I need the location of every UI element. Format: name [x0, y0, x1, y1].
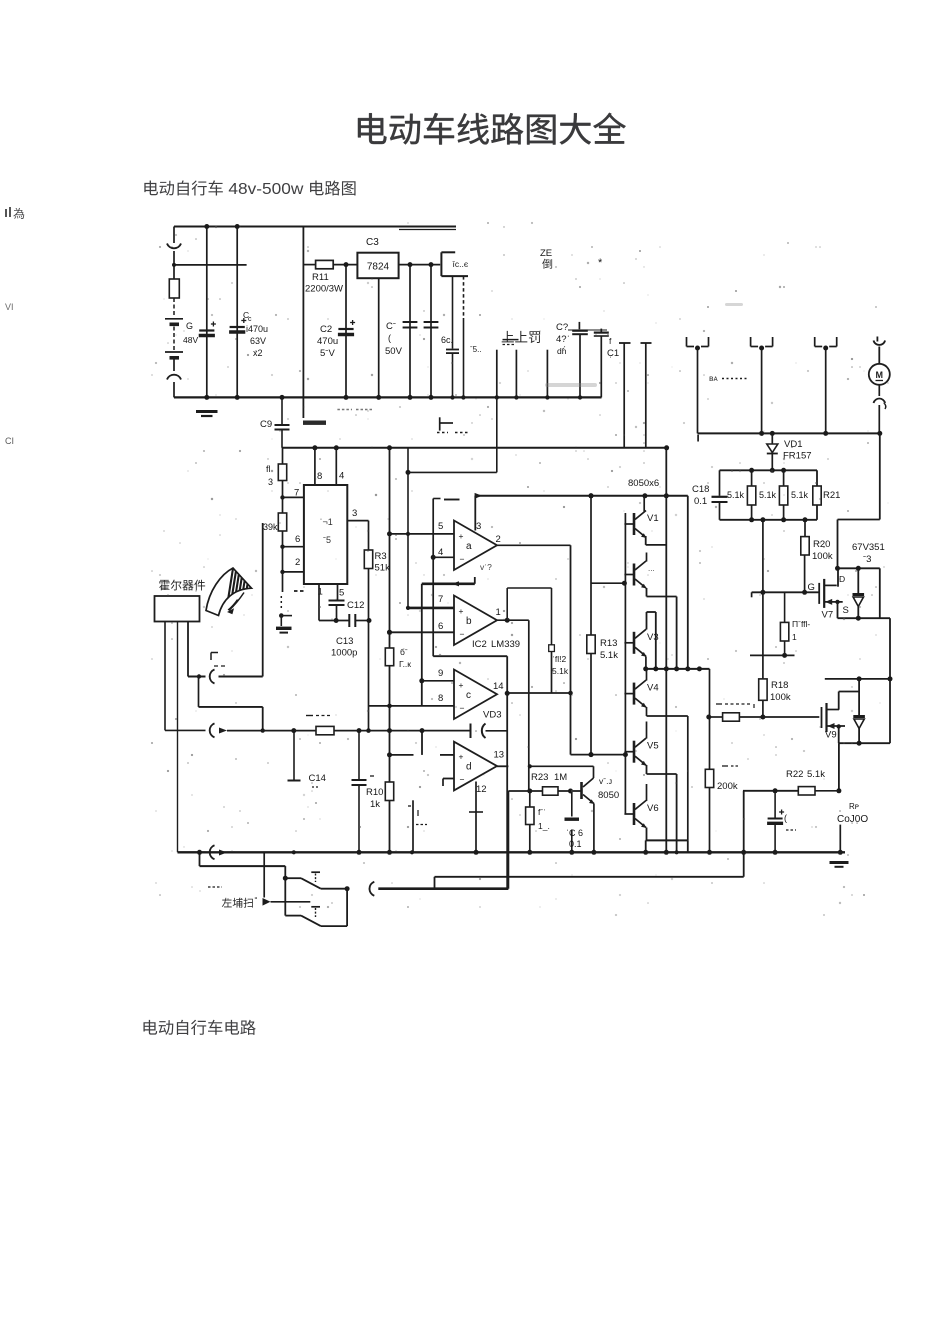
label CoJOO	[837, 802, 868, 825]
capacitor C6	[568, 322, 607, 398]
svg-text:c: c	[248, 316, 252, 323]
svg-text:C̣1: C̣1	[607, 348, 619, 359]
ground under C1a	[196, 412, 218, 417]
svg-text:G: G	[808, 582, 815, 593]
capacitor C13 1000p	[319, 614, 372, 659]
wire V9 source down	[836, 743, 841, 793]
svg-text:C18: C18	[692, 484, 709, 495]
dashed step mark	[437, 417, 470, 432]
svg-text:ˉ3: ˉ3	[863, 554, 871, 565]
battery G 48V	[165, 298, 198, 371]
wire speed cont	[334, 728, 471, 733]
wire square lower	[551, 652, 553, 694]
switch brake1	[285, 872, 349, 891]
svg-text:48V: 48V	[183, 335, 198, 345]
wire V1 emitter path	[646, 536, 667, 545]
label fl!2 5.1k	[552, 654, 569, 676]
wire out ground	[838, 825, 843, 855]
resistor fl 3	[266, 448, 287, 498]
wire cross small bar	[288, 731, 301, 781]
svg-text:dɦ́: dɦ́	[557, 345, 567, 356]
svg-text:100k: 100k	[812, 551, 833, 562]
svg-text:C14: C14	[309, 773, 326, 784]
wire V1 collector	[643, 496, 645, 512]
label pin5	[339, 588, 344, 599]
svg-text:V9: V9	[825, 730, 837, 741]
page title 电动车线路图大全	[358, 113, 626, 145]
margin artifact 為	[5, 207, 24, 219]
svg-text:−: −	[460, 554, 465, 564]
svg-text:LM339: LM339	[491, 639, 520, 650]
regulator IC3 7824	[357, 253, 398, 279]
wire cap-leg 625 up	[619, 343, 631, 448]
svg-text:fl: fl	[266, 464, 271, 474]
svg-text:1000p: 1000p	[331, 648, 357, 659]
svg-text:5.1k: 5.1k	[759, 490, 777, 500]
wire pin1 stub	[318, 584, 320, 621]
wire V7 drain	[835, 566, 880, 587]
wire 762 vertical	[762, 520, 764, 679]
resistor 200k	[705, 717, 740, 855]
svg-text:2200/3W: 2200/3W	[305, 284, 343, 295]
svg-text:12: 12	[476, 784, 487, 795]
svg-text:Пˉffl-: Пˉffl-	[792, 619, 810, 629]
wire mid horizontal 48V	[172, 263, 247, 267]
svg-text:R10: R10	[366, 787, 383, 798]
label C.1	[607, 336, 619, 359]
svg-text:V5: V5	[647, 741, 659, 752]
motor M	[869, 364, 890, 385]
wire base link	[591, 581, 627, 586]
node square marker	[549, 645, 555, 652]
svg-text:+: +	[459, 606, 464, 616]
svg-text:IC2: IC2	[472, 639, 487, 650]
svg-text:V3: V3	[647, 632, 659, 643]
wire b minus in	[387, 630, 454, 635]
capacitor stub A	[496, 350, 498, 398]
resistor 5.1k mid	[385, 448, 411, 733]
wire main ground rail	[178, 850, 846, 855]
wire c minus in	[369, 704, 455, 709]
wire rail B	[282, 445, 669, 450]
resistor R11 2200/3W	[303, 260, 357, 294]
wire base bus	[623, 513, 628, 814]
wire bus-to-railB link	[697, 435, 699, 442]
resistor network frame	[720, 468, 818, 523]
wire 24V out	[399, 262, 441, 267]
connector plug bottom-left	[167, 375, 181, 398]
svg-text:14: 14	[493, 681, 504, 692]
wire V4 emitter path	[647, 707, 688, 840]
ground output	[830, 863, 849, 867]
wire b-out long vertical	[527, 620, 532, 793]
label underline TM	[503, 340, 519, 345]
svg-text:7824: 7824	[367, 262, 390, 273]
svg-text:+: +	[459, 531, 464, 541]
resistor R20 100k	[801, 520, 833, 593]
svg-text:(: (	[388, 333, 391, 343]
wire pin8 top	[314, 448, 316, 484]
wire V7 source	[835, 568, 890, 620]
svg-text:VD3: VD3	[483, 710, 501, 721]
wire pin7	[280, 495, 304, 499]
svg-text:3: 3	[476, 521, 481, 532]
svg-text:S: S	[843, 605, 849, 616]
svg-text:C12: C12	[347, 600, 364, 611]
wire a out	[497, 544, 571, 546]
svg-text:5.1k: 5.1k	[727, 490, 745, 500]
label 5..	[470, 345, 482, 354]
resistor speed	[306, 716, 334, 735]
svg-text:C?: C?	[556, 322, 568, 333]
margin artifact CI	[5, 436, 14, 446]
diode V9 body	[853, 679, 865, 743]
label IC2 LM339	[472, 639, 520, 650]
resistor R3 51k	[364, 550, 390, 733]
wire R22 row	[741, 788, 798, 877]
diode VD1 FR157	[767, 433, 812, 470]
wire rail-to-bus 688	[685, 496, 690, 672]
wire dashed-box left vertical	[302, 227, 304, 419]
resistor Rb 5.1k	[759, 470, 788, 520]
capacitor stub C	[546, 350, 548, 398]
resistor Ra 5.1k	[727, 470, 756, 520]
svg-text:Г..к: Г..к	[399, 659, 411, 669]
mosfet V7	[819, 574, 849, 621]
label C3	[366, 237, 379, 248]
svg-text:R3: R3	[375, 551, 387, 562]
svg-text:5.1k: 5.1k	[791, 490, 809, 500]
capacitor C7 end	[594, 329, 609, 398]
wire hall row2	[199, 677, 265, 733]
svg-text:51k: 51k	[375, 563, 391, 574]
svg-text:R11: R11	[312, 272, 329, 283]
svg-text:63V: 63V	[250, 336, 266, 346]
wire 78L05 lower left	[446, 276, 459, 399]
label pin2	[295, 557, 300, 568]
wire speed main	[294, 730, 316, 732]
wire V2 emitter path	[647, 588, 680, 671]
capacitor C2 470u	[338, 265, 355, 400]
wire 78L05 lower right	[461, 276, 465, 399]
svg-text:8050: 8050	[598, 790, 619, 801]
capacitor C18 0.1	[692, 470, 728, 520]
svg-text:b: b	[466, 616, 472, 627]
switch brake2	[285, 889, 347, 926]
op-amp IC2d	[454, 742, 504, 795]
svg-text:ˈ¬1: ˈ¬1	[320, 517, 333, 527]
svg-text:i470u: i470u	[246, 324, 268, 334]
capacitor C14	[309, 731, 375, 855]
wire 709 vertical	[709, 669, 711, 717]
svg-text:470u: 470u	[317, 336, 338, 347]
connector motor bottom	[874, 385, 886, 434]
label 67V351 x3	[852, 542, 885, 565]
thick bar under box	[303, 410, 373, 425]
wire pin4 top	[335, 448, 337, 484]
svg-text:a: a	[466, 541, 472, 552]
wire V9 gate row	[706, 715, 765, 720]
svg-text:ʺ: ʺ	[255, 896, 258, 905]
wire hall row1	[188, 523, 263, 684]
capacitor C5	[424, 265, 439, 400]
wire R23 row	[508, 791, 542, 889]
svg-text:C9: C9	[260, 419, 272, 430]
svg-text:7: 7	[438, 594, 443, 605]
label pin1	[318, 587, 323, 598]
wire V3 emitter	[643, 657, 648, 672]
wire b out	[497, 588, 529, 623]
svg-text:0.1: 0.1	[694, 496, 707, 507]
wire hall row3 throttle	[165, 723, 296, 737]
label 8050x6	[628, 478, 659, 489]
wire hall pin1	[164, 622, 166, 731]
wire battery to fuse	[173, 266, 175, 280]
mark dashes under IC1	[294, 590, 306, 592]
svg-text:(: (	[784, 813, 787, 823]
capacitor C1a	[199, 227, 216, 398]
label 霍尔器件	[159, 580, 205, 591]
svg-text:1: 1	[496, 607, 501, 618]
svg-text:ᴠˈ?: ᴠˈ?	[480, 562, 492, 572]
wire a minus in	[431, 555, 454, 560]
transistor V1	[624, 511, 658, 539]
wire mid bus	[646, 666, 710, 671]
label pin4	[339, 471, 344, 482]
svg-text:CoJ̣0̣O: CoJ̣0̣O	[837, 814, 868, 825]
svg-text:1M: 1M	[554, 772, 567, 783]
wire hall pin2	[177, 622, 179, 853]
svg-text:8: 8	[317, 471, 322, 482]
svg-text:67V351: 67V351	[852, 542, 885, 553]
label 上上罚	[502, 331, 540, 343]
wire V5 emitter path	[647, 765, 677, 840]
wire V9 bottom	[837, 679, 891, 746]
svg-text:FR157: FR157	[783, 451, 812, 462]
wire mid cross	[433, 656, 507, 693]
svg-text:5ˉV: 5ˉV	[320, 348, 335, 359]
scan smudge 1	[545, 383, 597, 387]
hall sensor box	[155, 596, 200, 622]
svg-text:4: 4	[438, 547, 443, 558]
resistor 39k	[263, 497, 287, 546]
svg-text:ᴠˉ.ᴊ: ᴠˉ.ᴊ	[599, 776, 612, 786]
wire brake feed	[200, 852, 288, 915]
wire V2 collector	[646, 553, 648, 562]
scan smudge 2	[725, 303, 743, 306]
wire cap-leg 646 up	[641, 343, 652, 448]
resistor V9 gate	[716, 704, 819, 721]
label C? 4?	[556, 322, 570, 356]
label 左刹把	[208, 887, 258, 908]
svg-text:...: ...	[648, 564, 655, 573]
svg-text:1: 1	[792, 632, 797, 642]
label pin6	[295, 534, 300, 545]
diode V7 body	[853, 568, 865, 618]
subtitle 电动自行车 48v-500w 电路图	[144, 180, 355, 198]
wire b-to-square	[507, 587, 551, 589]
op-amp IC2b	[438, 594, 501, 645]
svg-text:13: 13	[494, 750, 505, 761]
wire column top rail	[475, 493, 688, 531]
capacitor base C	[565, 791, 580, 855]
svg-text:200k: 200k	[717, 781, 738, 792]
svg-text:R22: R22	[786, 769, 803, 780]
capacitor C12	[329, 584, 365, 621]
connector brake out	[369, 882, 508, 896]
svg-text:c: c	[466, 690, 471, 701]
label motor dashed	[709, 373, 748, 383]
wire d minus in	[443, 779, 454, 787]
margin artifact VI	[5, 302, 14, 312]
svg-text:5: 5	[438, 521, 443, 532]
wire V9 top row	[825, 676, 890, 691]
capacitor stub B	[515, 350, 517, 398]
svg-text:2: 2	[496, 534, 501, 545]
capacitor C1b	[229, 227, 246, 398]
resistor R21 5.1k	[791, 486, 840, 505]
wire V9 drain	[838, 692, 840, 710]
svg-text:+: +	[459, 680, 464, 690]
resistor R22 5.1k	[786, 769, 839, 795]
wire c plus vertical	[421, 584, 423, 706]
fuse FU	[169, 279, 179, 298]
connector gnd left	[178, 845, 236, 859]
wire phase bus	[698, 431, 883, 436]
svg-text:−: −	[460, 703, 465, 713]
op-amp IC2a	[438, 521, 501, 573]
svg-text:CI: CI	[5, 436, 14, 446]
svg-text:−: −	[460, 774, 465, 784]
throttle grip	[206, 562, 254, 616]
label ZE 倒	[540, 248, 552, 269]
wire d pin12 stub	[469, 782, 483, 855]
svg-text:−: −	[460, 629, 465, 639]
svg-text:īᴄ..є: īᴄ..є	[453, 259, 469, 269]
transistor V13 8050	[580, 766, 619, 855]
bar over a	[444, 499, 460, 501]
svg-text:3: 3	[352, 508, 357, 519]
svg-text:1_.: 1_.	[538, 821, 550, 831]
svg-text:0.1: 0.1	[569, 839, 582, 849]
regulator 78L05	[441, 252, 468, 276]
transistor V6	[624, 801, 658, 829]
wire stub 413	[408, 800, 427, 852]
svg-text:39k: 39k	[263, 522, 278, 532]
connector phase A	[687, 337, 709, 433]
wire top rail	[174, 224, 456, 230]
wire V3 collector	[647, 612, 656, 669]
op-amp IC2c	[438, 668, 504, 719]
resistor gate pulldown	[750, 592, 810, 658]
svg-text:G: G	[186, 321, 193, 331]
connector motor top	[874, 337, 886, 364]
label C? 50V	[385, 321, 403, 357]
wire feedback box	[435, 877, 744, 889]
wire ground rail upper	[174, 395, 602, 400]
wire V5 collector	[646, 722, 648, 739]
transistor V2	[624, 561, 654, 589]
ground IC1	[276, 628, 292, 632]
resistor R18 100k	[759, 679, 791, 717]
svg-text:50V: 50V	[385, 346, 403, 357]
svg-text:ˉ5: ˉ5	[323, 535, 331, 545]
label C2 470u 50V	[317, 324, 338, 359]
wire a-out vertical long	[568, 545, 573, 754]
mosfet V9	[822, 703, 846, 741]
svg-text:R18: R18	[771, 680, 788, 691]
label C6 0.1	[566, 828, 583, 849]
svg-text:ˉ5..: ˉ5..	[470, 345, 482, 354]
wire hall pin3	[187, 622, 189, 677]
wire c plus in	[419, 678, 454, 683]
svg-text:R21: R21	[823, 490, 840, 501]
wire V6 emitter path	[643, 828, 688, 855]
wire battery left rail upper	[173, 227, 175, 244]
wire to ground dashed	[279, 572, 292, 626]
svg-text:бˉ: бˉ	[400, 647, 408, 657]
svg-text:R13: R13	[600, 638, 617, 649]
svg-text:4?ˈ: 4?ˈ	[556, 334, 570, 345]
wire a plus in	[387, 531, 454, 536]
svg-text:7: 7	[294, 488, 299, 499]
resistor R13 5.1k	[587, 493, 618, 757]
svg-text:3: 3	[268, 477, 273, 487]
svg-text:5.1k: 5.1k	[600, 650, 618, 661]
wire V7-V9 link	[888, 618, 893, 681]
label pin3	[352, 508, 357, 519]
svg-text:ZE: ZE	[540, 248, 552, 259]
svg-text:ˈC 6: ˈC 6	[566, 828, 583, 838]
wire square upper	[551, 588, 553, 645]
svg-text:C13: C13	[336, 636, 353, 647]
hook mark upper	[211, 653, 228, 667]
svg-text:6ᴄ.: 6ᴄ.	[441, 335, 453, 345]
svg-text:8050x6: 8050x6	[628, 478, 659, 489]
wire railB link down	[408, 397, 497, 472]
connector phase B	[751, 337, 773, 436]
svg-text:5.1k: 5.1k	[552, 666, 569, 676]
label star	[598, 257, 603, 269]
svg-text:M: M	[876, 370, 884, 380]
svg-text:100k: 100k	[770, 692, 791, 703]
wire minus bus vertical	[433, 499, 440, 657]
wire comp feed vertical	[406, 448, 411, 608]
wire motor down	[838, 433, 880, 568]
svg-text:C3: C3	[366, 237, 379, 248]
svg-text:6: 6	[295, 534, 300, 545]
svg-text:VI: VI	[5, 302, 14, 312]
svg-text:8: 8	[438, 693, 443, 704]
wire V6 collector	[646, 784, 648, 801]
wire collector link	[530, 765, 594, 767]
svg-text:2: 2	[295, 557, 300, 568]
wire c out	[505, 691, 571, 889]
wire V7 gate row	[752, 590, 820, 598]
scan noise speckle	[151, 222, 889, 916]
svg-text:fˉˈ: fˉˈ	[538, 807, 546, 817]
resistor base lower	[526, 791, 550, 855]
label pin8	[317, 471, 322, 482]
resistor R23 1M	[531, 772, 581, 795]
wire b plus in	[406, 606, 454, 610]
svg-text:V4: V4	[647, 683, 659, 694]
label pin7	[294, 488, 299, 499]
svg-text:R20: R20	[813, 539, 830, 550]
wire brake2 feed	[263, 852, 311, 905]
label Cc 470u 63V x2	[243, 310, 268, 358]
IC IC1 box	[304, 485, 347, 584]
